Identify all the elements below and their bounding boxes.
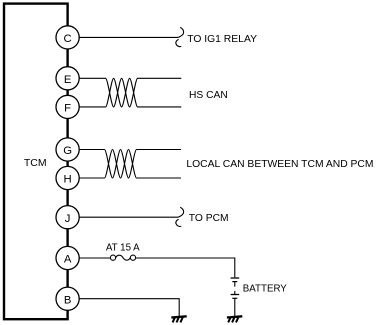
pin B <box>56 287 79 310</box>
svg-text:HS CAN: HS CAN <box>189 89 228 101</box>
svg-text:H: H <box>64 174 72 186</box>
ground (battery negative) <box>227 316 242 317</box>
svg-text:F: F <box>64 103 71 115</box>
TCM module box <box>4 4 68 320</box>
fuse AT 15 A <box>110 255 115 260</box>
svg-text:C: C <box>64 33 72 45</box>
pin A <box>56 246 79 269</box>
pin J <box>56 206 79 229</box>
svg-text:G: G <box>63 145 72 157</box>
twisted pair E/F (HS CAN) : wire E <box>68 78 182 107</box>
wire A to fuse <box>68 257 111 259</box>
wire B to ground <box>68 299 180 317</box>
svg-text:TO PCM: TO PCM <box>189 212 229 224</box>
twisted pair E/F (HS CAN) : wire F <box>68 78 182 107</box>
svg-text:J: J <box>65 213 71 225</box>
twisted pair G/H (local CAN) : wire H <box>68 150 181 179</box>
svg-text:A: A <box>64 254 72 266</box>
pin F <box>56 95 79 118</box>
svg-text:B: B <box>64 294 72 306</box>
svg-text:TCM: TCM <box>24 157 47 169</box>
continuation squiggle (to IG1 relay) <box>176 27 184 46</box>
twisted pair G/H (local CAN) : wire G <box>68 150 181 179</box>
pin E <box>56 67 79 90</box>
wire C to IG1 relay <box>68 36 179 38</box>
svg-text:TO IG1 RELAY: TO IG1 RELAY <box>187 33 257 45</box>
pin C <box>56 26 79 49</box>
continuation squiggle (to PCM) <box>176 207 184 226</box>
wire fuse to battery <box>136 258 235 277</box>
svg-text:E: E <box>64 74 72 86</box>
ground (pin B) <box>171 316 186 317</box>
wire J to PCM <box>68 216 179 218</box>
pin H <box>56 166 79 189</box>
svg-text:BATTERY: BATTERY <box>243 283 287 295</box>
battery <box>231 278 240 317</box>
pin G <box>56 138 79 161</box>
svg-text:LOCAL CAN BETWEEN TCM AND PCM: LOCAL CAN BETWEEN TCM AND PCM <box>186 158 373 170</box>
svg-text:AT 15 A: AT 15 A <box>106 242 140 254</box>
